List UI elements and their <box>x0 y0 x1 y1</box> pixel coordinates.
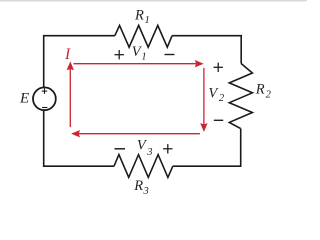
svg-text:R: R <box>255 82 265 98</box>
svg-text:2: 2 <box>266 89 272 100</box>
wire right-bottom segment <box>173 129 241 167</box>
svg-text:3: 3 <box>146 147 152 158</box>
resistor R1 <box>115 25 172 47</box>
minus V3 <box>115 148 126 150</box>
voltage source E <box>33 87 56 110</box>
plus V1 <box>115 50 124 59</box>
svg-text:R: R <box>133 178 143 194</box>
svg-text:E: E <box>19 90 29 106</box>
wire bottom-left segment <box>44 111 114 167</box>
plus V2 <box>214 63 223 72</box>
current arrow top (right) <box>74 60 204 67</box>
current arrow left (up) <box>67 61 74 127</box>
svg-text:1: 1 <box>145 15 150 26</box>
resistor R3 <box>114 155 173 178</box>
source minus <box>42 107 47 109</box>
svg-text:V: V <box>208 86 219 102</box>
svg-text:2: 2 <box>219 93 225 104</box>
current arrow bottom (left) <box>71 130 200 137</box>
svg-text:V: V <box>137 137 148 153</box>
plus V3 <box>163 144 172 153</box>
svg-text:R: R <box>134 8 144 24</box>
wire top-right segment <box>172 36 241 64</box>
top rule <box>0 0 307 2</box>
resistor R2 <box>229 64 252 129</box>
source plus <box>42 88 47 94</box>
svg-text:I: I <box>64 46 71 63</box>
svg-text:1: 1 <box>141 52 146 63</box>
minus V1 <box>165 54 175 56</box>
minus V2 <box>214 119 223 121</box>
svg-text:3: 3 <box>143 186 149 197</box>
current arrow right (down) <box>200 68 207 132</box>
wire top-left segment <box>44 36 115 87</box>
